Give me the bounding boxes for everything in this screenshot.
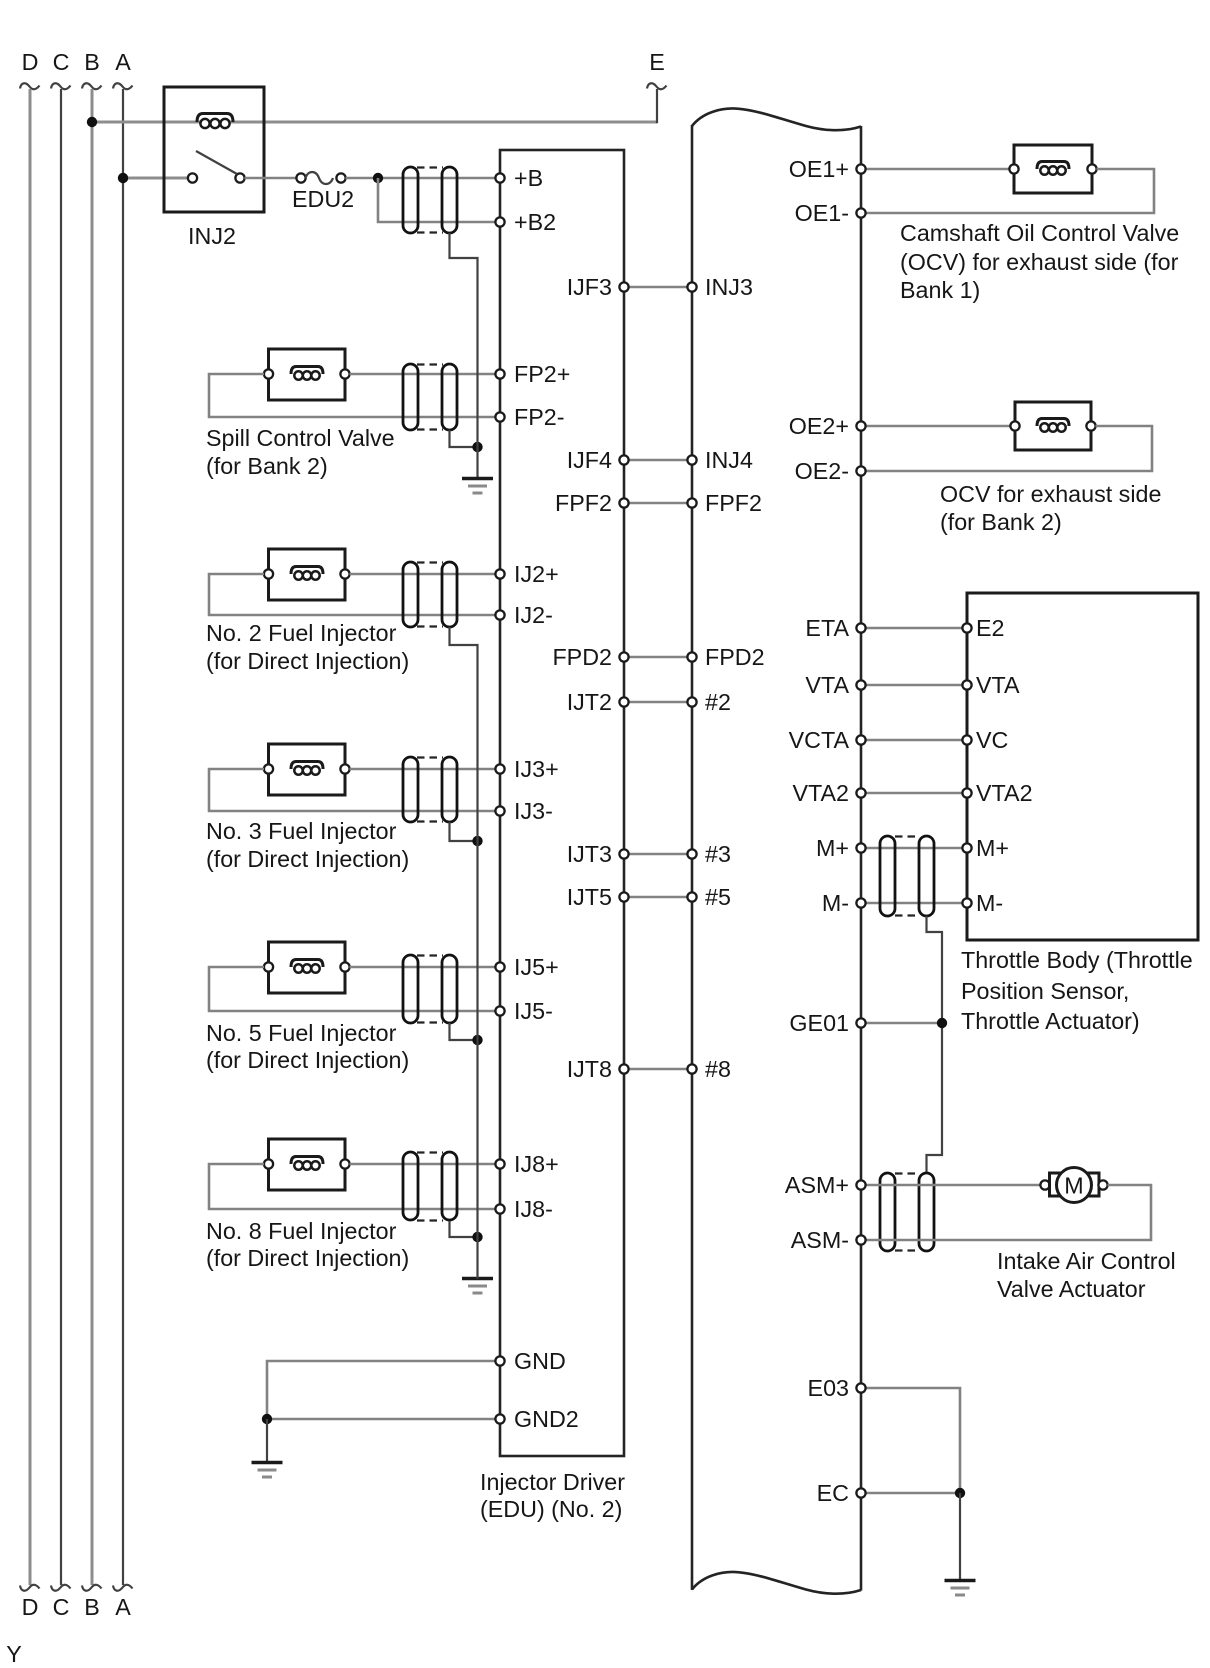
svg-text:VTA: VTA (976, 672, 1020, 698)
wire OE2+ to OCV bank2 (861, 425, 1015, 428)
junction dot shield ground IJ5 (472, 1035, 482, 1045)
pin M- right (962, 898, 971, 907)
wire IJF4 to INJ4 (624, 459, 692, 462)
svg-text:GND: GND (514, 1348, 566, 1374)
wire bus D (29, 89, 32, 1585)
spill control valve coil box (269, 349, 346, 400)
junction dot shield ground IJ3 (472, 836, 482, 846)
svg-text:Camshaft Oil Control Valve: Camshaft Oil Control Valve (900, 220, 1179, 246)
camshaft OCV bank1 coil box (1014, 145, 1092, 193)
svg-text:IJ5-: IJ5- (514, 998, 553, 1024)
svg-text:EDU2: EDU2 (292, 186, 354, 212)
wire No.2 injector loop to IJ2- (209, 574, 500, 615)
svg-text:INJ4: INJ4 (705, 447, 753, 473)
shield for IJ2 pair: right oval (442, 562, 457, 627)
fuse EDU2 wavy element (306, 172, 334, 184)
junction dot on A (118, 173, 128, 183)
wire No.8 injector to IJ8+ (350, 1163, 501, 1166)
svg-text:VTA2: VTA2 (792, 780, 849, 806)
relay INJ2 switch wire right (245, 177, 297, 180)
pin ASM+ (856, 1180, 865, 1189)
svg-text:M-: M- (822, 890, 849, 916)
pin GND2 (495, 1414, 504, 1423)
break symbol B bottom (82, 1585, 102, 1591)
wire OCV bank2 loop to OE2- (861, 426, 1152, 471)
svg-text:GND2: GND2 (514, 1406, 579, 1432)
svg-text:E2: E2 (976, 615, 1005, 641)
svg-text:IJ8+: IJ8+ (514, 1151, 559, 1177)
svg-text:IJF4: IJF4 (567, 447, 612, 473)
break symbol A top (113, 83, 133, 89)
wire shield +B ground drop (450, 233, 478, 447)
ground symbol below EC (945, 1579, 976, 1582)
shield for ASM pair: dashes (895, 1172, 919, 1174)
pin INJ3 (687, 282, 696, 291)
wire E03 (861, 1388, 960, 1493)
shield for IJ8 pair: dashes (417, 1151, 443, 1153)
wire OE1+ to OCV bank1 (861, 168, 1014, 171)
wire E vertical (656, 89, 658, 123)
break symbol E top (647, 83, 667, 89)
wire spill valve loop to FP2- (209, 374, 500, 417)
wire GE01 (861, 1022, 942, 1025)
pin VCTA (856, 735, 865, 744)
svg-text:+B: +B (514, 165, 543, 191)
wire shield IJ5 ground drop (450, 1023, 478, 1040)
wire M+ to M+ (861, 847, 967, 850)
wire GND2 to ground (267, 1418, 500, 1421)
No.5 fuel injector coil box (269, 942, 346, 993)
svg-text:OCV for exhaust side: OCV for exhaust side (940, 481, 1161, 507)
svg-text:IJT2: IJT2 (567, 689, 612, 715)
svg-text:Throttle Body (Throttle: Throttle Body (Throttle (961, 947, 1193, 973)
pin VC (962, 735, 971, 744)
svg-text:ETA: ETA (805, 615, 849, 641)
wire FPD2 to FPD2 (624, 656, 692, 659)
shield for ASM pair: right oval (919, 1173, 934, 1251)
No.8 injector terminal left (264, 1159, 273, 1168)
pin IJ2- (495, 610, 504, 619)
wire No.2 injector to IJ2+ (350, 573, 501, 576)
pin IJT5 (619, 892, 628, 901)
pin M+ right (962, 843, 971, 852)
pin VTA left (856, 680, 865, 689)
pin M- left (856, 898, 865, 907)
wire shield IJ2 ground drop and chain (450, 627, 478, 1279)
wire OCV bank1 loop to OE1- (861, 169, 1154, 213)
shield for IJ2 pair: dashes (417, 561, 443, 563)
wire bus C (60, 89, 62, 1585)
relay INJ2 box (164, 87, 264, 212)
break symbol D top (20, 83, 40, 89)
pin EC (856, 1488, 865, 1497)
svg-text:(for Direct Injection): (for Direct Injection) (206, 846, 409, 872)
wire shield IJ3 ground drop (450, 822, 478, 841)
pin IJT3 (619, 849, 628, 858)
svg-text:B: B (84, 1594, 100, 1620)
ground symbol below FP2 shield (462, 477, 493, 480)
svg-text:IJT3: IJT3 (567, 841, 612, 867)
pin IJ5+ (495, 962, 504, 971)
pin INJ4 (687, 455, 696, 464)
pin GND (495, 1356, 504, 1365)
shield for M pair: right oval (919, 836, 934, 916)
motor M brush left (1050, 1173, 1062, 1196)
shield for +B/+B2 pair: dashes (417, 166, 443, 168)
shield for FP2 pair: dashes (417, 363, 443, 365)
spill control valve coil (291, 367, 323, 375)
pin IJ3+ (495, 764, 504, 773)
throttle body box (967, 593, 1198, 940)
svg-text:Intake Air Control: Intake Air Control (997, 1248, 1176, 1274)
svg-text:(for Direct Injection): (for Direct Injection) (206, 1245, 409, 1271)
spill valve terminal left (264, 369, 273, 378)
wire GND to ground (267, 1361, 500, 1419)
svg-text:(for Direct Injection): (for Direct Injection) (206, 648, 409, 674)
pin OE2- (856, 466, 865, 475)
pin +B (495, 173, 504, 182)
ECM connector right edge (860, 126, 863, 1591)
break symbol D bottom (20, 1585, 40, 1591)
wire IJT8 to #8 (624, 1068, 692, 1071)
svg-text:IJ2+: IJ2+ (514, 561, 559, 587)
junction dot EC (955, 1488, 965, 1498)
OCV bank2 coil (1037, 419, 1069, 427)
junction dot +B branch (373, 173, 383, 183)
motor M body circle (1057, 1168, 1092, 1203)
No.5 injector terminal left (264, 962, 273, 971)
break symbol A bottom (113, 1585, 133, 1591)
wire ETA to E2 (861, 627, 967, 630)
wire IJF3 to INJ3 (624, 286, 692, 289)
No.8 fuel injector coil box (269, 1139, 346, 1190)
pin IJF4 (619, 455, 628, 464)
pin IJ3- (495, 806, 504, 815)
pin FP2- (495, 412, 504, 421)
pin #8 (687, 1064, 696, 1073)
pin FPF2 right (687, 498, 696, 507)
pin VTA2 right (962, 788, 971, 797)
svg-text:No. 5 Fuel Injector: No. 5 Fuel Injector (206, 1020, 397, 1046)
shield for +B/+B2 pair: right oval (442, 167, 457, 233)
break symbol C top (51, 83, 71, 89)
svg-text:#3: #3 (705, 841, 731, 867)
shield for +B/+B2 pair: left oval (403, 167, 418, 233)
wire IJT5 to #5 (624, 896, 692, 899)
svg-text:IJ5+: IJ5+ (514, 954, 559, 980)
wire bus A (122, 89, 124, 1585)
wire IJT3 to #3 (624, 853, 692, 856)
svg-text:A: A (115, 1594, 131, 1620)
wire No.5 injector to IJ5+ (350, 966, 501, 969)
break symbol B top (82, 83, 102, 89)
svg-text:A: A (115, 49, 131, 75)
wire B to relay coil to E (92, 121, 657, 124)
svg-text:OE2-: OE2- (795, 458, 849, 484)
svg-text:M+: M+ (976, 835, 1009, 861)
svg-text:FP2+: FP2+ (514, 361, 570, 387)
svg-text:M-: M- (976, 890, 1003, 916)
wire VCTA to VC (861, 739, 967, 742)
junction dot shield ground FP2 (472, 442, 482, 452)
shield for ASM pair: left oval (880, 1173, 895, 1251)
pin #5 (687, 892, 696, 901)
wire ASM+ to motor (861, 1184, 1040, 1187)
svg-text:IJ2-: IJ2- (514, 602, 553, 628)
svg-text:INJ3: INJ3 (705, 274, 753, 300)
svg-text:OE1+: OE1+ (789, 156, 849, 182)
svg-text:(OCV) for exhaust side (for: (OCV) for exhaust side (for (900, 249, 1179, 275)
OCV bank2 terminal left (1010, 421, 1019, 430)
svg-text:FPD2: FPD2 (552, 644, 612, 670)
shield for IJ8 pair: left oval (403, 1152, 418, 1220)
pin FPD2 right (687, 652, 696, 661)
ECM connector wavy top (692, 108, 861, 130)
svg-text:Y: Y (6, 1641, 22, 1667)
svg-text:No. 2 Fuel Injector: No. 2 Fuel Injector (206, 620, 397, 646)
svg-text:VTA: VTA (805, 672, 849, 698)
No.5 fuel injector coil (291, 960, 323, 968)
svg-text:#2: #2 (705, 689, 731, 715)
pin IJ2+ (495, 569, 504, 578)
svg-text:B: B (84, 49, 100, 75)
svg-text:FPF2: FPF2 (555, 490, 612, 516)
svg-text:FPD2: FPD2 (705, 644, 765, 670)
pin IJ8+ (495, 1159, 504, 1168)
svg-text:No. 8 Fuel Injector: No. 8 Fuel Injector (206, 1218, 397, 1244)
shield for IJ3 pair: dashes (417, 756, 443, 758)
pin M+ left (856, 843, 865, 852)
svg-text:IJF3: IJF3 (567, 274, 612, 300)
fuse EDU2 circle right (336, 173, 345, 182)
wire M shield ground to GE01 junction (927, 916, 943, 1173)
pin VTA right (962, 680, 971, 689)
pin OE1- (856, 208, 865, 217)
shield for IJ8 pair: right oval (442, 1152, 457, 1220)
svg-text:EC: EC (817, 1480, 849, 1506)
wire ground stem EC (959, 1493, 961, 1581)
pin ASM- (856, 1235, 865, 1244)
wire VTA to VTA (861, 684, 967, 687)
svg-text:Spill Control Valve: Spill Control Valve (206, 425, 395, 451)
svg-text:VC: VC (976, 727, 1008, 753)
pin OE2+ (856, 421, 865, 430)
svg-text:C: C (53, 1594, 70, 1620)
relay INJ2 switch blade (196, 151, 237, 174)
fuse EDU2 circle left (296, 173, 305, 182)
svg-text:IJ8-: IJ8- (514, 1196, 553, 1222)
wire EC (861, 1492, 960, 1495)
svg-text:VCTA: VCTA (789, 727, 850, 753)
svg-text:+B2: +B2 (514, 209, 556, 235)
pin +B2 (495, 217, 504, 226)
svg-text:(for Bank 2): (for Bank 2) (940, 509, 1062, 535)
pin IJ8- (495, 1204, 504, 1213)
pin FP2+ (495, 369, 504, 378)
relay INJ2 switch contact left (188, 173, 197, 182)
svg-text:D: D (22, 49, 39, 75)
motor M brush right (1087, 1173, 1099, 1196)
svg-text:IJT5: IJT5 (567, 884, 612, 910)
wire spill valve to FP2+ (350, 373, 501, 376)
svg-text:GE01: GE01 (789, 1010, 849, 1036)
junction dot on B (87, 117, 97, 127)
svg-text:ASM+: ASM+ (785, 1172, 849, 1198)
shield for IJ5 pair: dashes (417, 954, 443, 956)
OCV bank2 terminal right (1086, 421, 1095, 430)
svg-text:No. 3 Fuel Injector: No. 3 Fuel Injector (206, 818, 397, 844)
wire No.3 injector loop to IJ3- (209, 769, 500, 811)
svg-text:IJT8: IJT8 (567, 1056, 612, 1082)
svg-text:VTA2: VTA2 (976, 780, 1033, 806)
pin IJ5- (495, 1006, 504, 1015)
svg-text:ASM-: ASM- (791, 1227, 849, 1253)
shield for M pair: left oval (880, 836, 895, 916)
No.2 injector terminal right (340, 569, 349, 578)
junction dot shield ground IJ8 (472, 1232, 482, 1242)
shield for IJ2 pair: left oval (403, 562, 418, 627)
wire motor loop to ASM- (861, 1185, 1151, 1240)
wire VTA2 to VTA2 (861, 792, 967, 795)
spill valve terminal right (340, 369, 349, 378)
svg-text:Position Sensor,: Position Sensor, (961, 978, 1129, 1004)
wire M- to M- (861, 902, 967, 905)
svg-text:(for Direct Injection): (for Direct Injection) (206, 1047, 409, 1073)
motor M terminal left circle (1040, 1180, 1049, 1189)
shield for M pair: dashes (895, 835, 919, 837)
pin IJT2 (619, 697, 628, 706)
svg-text:M: M (1064, 1173, 1083, 1199)
motor M terminal right circle (1098, 1180, 1107, 1189)
svg-text:Injector Driver: Injector Driver (480, 1469, 625, 1495)
OCV bank2 coil box (1015, 402, 1091, 450)
svg-text:E: E (649, 49, 665, 75)
No.8 fuel injector coil (291, 1157, 323, 1165)
No.3 injector terminal right (340, 764, 349, 773)
svg-text:(for Bank 2): (for Bank 2) (206, 453, 328, 479)
pin IJF3 (619, 282, 628, 291)
svg-text:C: C (53, 49, 70, 75)
No.3 fuel injector coil (291, 762, 323, 770)
No.5 injector terminal right (340, 962, 349, 971)
pin E2 (962, 623, 971, 632)
svg-text:IJ3-: IJ3- (514, 798, 553, 824)
No.2 fuel injector coil (291, 567, 323, 575)
OCV bank1 terminal right (1087, 164, 1096, 173)
relay INJ2 coil (197, 114, 233, 123)
svg-text:(EDU) (No. 2): (EDU) (No. 2) (480, 1496, 622, 1522)
wire ground stem GND (266, 1419, 268, 1463)
wire No.3 injector to IJ3+ (350, 768, 501, 771)
svg-text:Throttle Actuator): Throttle Actuator) (961, 1008, 1140, 1034)
pin FPF2 left (619, 498, 628, 507)
No.2 fuel injector coil box (269, 549, 346, 600)
svg-text:FP2-: FP2- (514, 404, 564, 430)
svg-text:E03: E03 (808, 1375, 849, 1401)
pin IJT8 (619, 1064, 628, 1073)
wire IJT2 to #2 (624, 701, 692, 704)
wire shield FP2 ground drop (450, 430, 478, 447)
ground symbol below IJ8 shield chain (462, 1277, 493, 1280)
svg-text:D: D (22, 1594, 39, 1620)
svg-text:Bank 1): Bank 1) (900, 277, 980, 303)
ECM connector wavy bottom (692, 1572, 861, 1594)
No.3 fuel injector coil box (269, 744, 346, 795)
svg-text:Valve Actuator: Valve Actuator (997, 1276, 1146, 1302)
pin #3 (687, 849, 696, 858)
shield for IJ3 pair: left oval (403, 757, 418, 822)
shield for FP2 pair: right oval (442, 364, 457, 430)
shield for FP2 pair: left oval (403, 364, 418, 430)
wire fuse to +B junction (346, 177, 501, 180)
pin GE01 (856, 1018, 865, 1027)
svg-text:OE2+: OE2+ (789, 413, 849, 439)
svg-text:FPF2: FPF2 (705, 490, 762, 516)
pin FPD2 left (619, 652, 628, 661)
break symbol C bottom (51, 1585, 71, 1591)
wire ground stem FP2 (476, 447, 478, 479)
pin ETA (856, 623, 865, 632)
No.8 injector terminal right (340, 1159, 349, 1168)
wire A to relay switch (123, 177, 188, 180)
wire No.8 injector loop to IJ8- (209, 1164, 500, 1209)
pin OE1+ (856, 164, 865, 173)
wire FPF2 to FPF2 (624, 502, 692, 505)
EDU injector driver box (500, 150, 624, 1456)
No.3 injector terminal left (264, 764, 273, 773)
wire No.5 injector loop to IJ5- (209, 967, 500, 1011)
junction dot GND2 (262, 1414, 272, 1424)
svg-text:IJ3+: IJ3+ (514, 756, 559, 782)
ground symbol below GND2 (252, 1461, 283, 1464)
svg-text:M+: M+ (816, 835, 849, 861)
pin #2 (687, 697, 696, 706)
No.2 injector terminal left (264, 569, 273, 578)
camshaft OCV bank1 coil (1037, 162, 1069, 170)
svg-text:#5: #5 (705, 884, 731, 910)
pin E03 (856, 1383, 865, 1392)
svg-text:OE1-: OE1- (795, 200, 849, 226)
wire shield IJ8 ground drop (450, 1221, 478, 1237)
OCV bank1 terminal left (1009, 164, 1018, 173)
svg-text:INJ2: INJ2 (188, 223, 236, 249)
wire +B2 branch (378, 178, 500, 222)
svg-text:#8: #8 (705, 1056, 731, 1082)
pin VTA2 left (856, 788, 865, 797)
junction dot GE01 (937, 1018, 947, 1028)
shield for IJ3 pair: right oval (442, 757, 457, 822)
relay INJ2 switch contact right (235, 173, 244, 182)
shield for IJ5 pair: right oval (442, 955, 457, 1023)
ECM connector left edge (691, 125, 694, 1590)
shield for IJ5 pair: left oval (403, 955, 418, 1023)
wire bus B (91, 89, 94, 1585)
